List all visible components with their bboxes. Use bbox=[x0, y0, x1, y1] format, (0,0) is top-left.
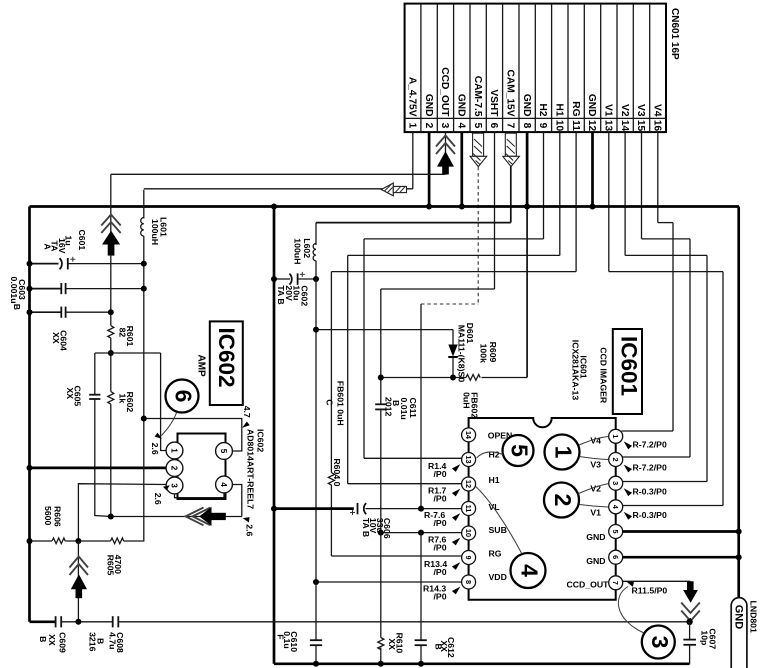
svg-text:4.7: 4.7 bbox=[242, 406, 252, 418]
svg-text:SUB: SUB bbox=[489, 525, 507, 535]
junction dot C607 node bbox=[686, 619, 692, 625]
IC602 pin 5 bbox=[216, 443, 233, 460]
wire pin12 GND stub bbox=[591, 132, 594, 206]
svg-text:R604 0: R604 0 bbox=[332, 458, 342, 486]
inductor L601 bbox=[141, 190, 144, 419]
svg-text:V1: V1 bbox=[590, 508, 601, 518]
wire R609 to GND (x527) bbox=[482, 377, 528, 379]
wire SUB down through R610 bbox=[380, 533, 382, 638]
svg-text:9: 9 bbox=[464, 555, 473, 559]
svg-text:4: 4 bbox=[456, 123, 467, 129]
wire IC602 pin4 output bbox=[232, 485, 241, 517]
wire V2 into IC601 pin3 bbox=[623, 481, 708, 483]
IC601 pin 11 bbox=[462, 502, 476, 516]
wire CCD_OUT mid vertical upper bbox=[110, 174, 112, 245]
svg-text:2.6: 2.6 bbox=[153, 493, 163, 505]
wire V4 horizontal right bbox=[658, 222, 673, 224]
wire V3 into IC601 pin2 bbox=[623, 456, 691, 458]
note circle 5 bbox=[503, 435, 534, 466]
probe arrow 4.7 bbox=[242, 422, 250, 428]
svg-text:1k: 1k bbox=[118, 394, 128, 404]
IC601 pin 8 bbox=[462, 575, 476, 589]
svg-text:3: 3 bbox=[439, 123, 450, 129]
capacitor C606 (polarized) bbox=[358, 503, 367, 514]
svg-text:10p: 10p bbox=[699, 630, 709, 645]
wire pin8 GND stub bbox=[526, 132, 529, 206]
wire V1 into IC601 pin4 bbox=[623, 505, 724, 507]
signal chevrons CCD_OUT (mid) bbox=[101, 215, 120, 234]
probe arrow 2.6 at IC602 pin1 bbox=[155, 433, 162, 439]
junction dot output/R602/C605 bbox=[108, 514, 114, 520]
svg-text:MA111-(K8)S0: MA111-(K8)S0 bbox=[457, 325, 467, 383]
wire 4.75V to IC602 pin5 bbox=[144, 419, 242, 452]
svg-text:V4: V4 bbox=[652, 104, 663, 117]
svg-text:GND: GND bbox=[586, 94, 597, 117]
svg-text:AMP: AMP bbox=[196, 355, 207, 378]
wire C611 to SUB node bbox=[380, 409, 382, 532]
probe arrow + label R13.4/P0 (pin9) bbox=[452, 562, 460, 570]
wire VSHT node row (y377.5) bbox=[381, 377, 466, 379]
junction dots on left rail bbox=[27, 261, 33, 267]
wire CAM_15V horizontal to L602 bbox=[316, 222, 511, 224]
left GND rail bbox=[28, 207, 31, 622]
svg-text:GND: GND bbox=[586, 556, 605, 566]
svg-text:R-7.2/P0: R-7.2/P0 bbox=[633, 439, 667, 449]
svg-text:12: 12 bbox=[464, 480, 473, 488]
junction dots on L601 line bbox=[141, 261, 147, 267]
note circle 6 bbox=[166, 380, 199, 413]
wire C605 branch down bbox=[94, 353, 96, 395]
svg-text:IC602: IC602 bbox=[214, 328, 239, 388]
svg-text:XX: XX bbox=[387, 638, 397, 650]
note circle 2 bbox=[544, 483, 579, 518]
wire H2 horizontal bbox=[364, 238, 544, 240]
wire CAM_15V vertical down bbox=[315, 279, 317, 582]
svg-text:0.001u: 0.001u bbox=[9, 277, 19, 304]
svg-text:RG: RG bbox=[489, 548, 502, 558]
svg-text:F: F bbox=[275, 634, 285, 639]
svg-text:CAM-7.5: CAM-7.5 bbox=[472, 76, 483, 117]
wire pin11 RG stub bbox=[575, 132, 577, 272]
signal chevrons down bbox=[681, 603, 700, 622]
junction dots C602 bbox=[271, 276, 277, 282]
signal arrow CCD_OUT up (solid) bbox=[437, 151, 454, 174]
svg-text:0uH: 0uH bbox=[462, 392, 472, 408]
leader curve 1 to pin1 bbox=[579, 437, 609, 446]
svg-text:H1: H1 bbox=[554, 103, 565, 116]
probe arrow + label R7.6/P0 (pin10) bbox=[452, 538, 460, 546]
leader curve 4 to pin12 bbox=[476, 487, 522, 555]
wire V1 horizontal right bbox=[609, 271, 723, 273]
inductor L602 bbox=[313, 223, 316, 279]
wire pin2 GND stub bbox=[428, 132, 431, 206]
leader curve 2 to pin3 bbox=[579, 484, 609, 494]
svg-text:A: A bbox=[43, 244, 53, 251]
probe arrow 2.6 at IC602 pin3 bbox=[163, 485, 170, 490]
wire node to amp +IN (y353) bbox=[95, 352, 161, 354]
capacitor C612 plates bbox=[415, 640, 427, 645]
wire V2 horizontal right bbox=[625, 254, 707, 256]
svg-text:R606: R606 bbox=[53, 506, 63, 527]
wire R606-R605 row bbox=[30, 540, 53, 542]
wire pin3 CCD_OUT stub (under arrow) bbox=[445, 132, 447, 174]
probe arrow + label R14.3/P0 (pin8) bbox=[452, 587, 460, 595]
IC601 pin 5 bbox=[609, 525, 623, 539]
wire RG horizontal bbox=[331, 271, 576, 273]
svg-text:GND: GND bbox=[423, 94, 434, 117]
svg-text:11: 11 bbox=[570, 120, 581, 131]
wire branch to D601 bbox=[316, 329, 453, 331]
svg-text:CAM_15V: CAM_15V bbox=[505, 70, 516, 117]
note circle 4 bbox=[511, 553, 546, 588]
signal arrow CCD_OUT up (mid, solid) bbox=[102, 231, 120, 256]
wire V2 down right side bbox=[706, 255, 708, 481]
connector CN601 pin name labels bbox=[407, 67, 663, 117]
junction dot 4.75V/pin5 bbox=[141, 416, 147, 422]
svg-text:GND: GND bbox=[521, 94, 532, 117]
junction dots x110.8 bbox=[108, 309, 114, 315]
svg-text:13: 13 bbox=[464, 455, 473, 463]
IC602 body bbox=[178, 434, 226, 500]
off-page arrow down (CAM-7.5) hatched pin5 bbox=[470, 133, 487, 166]
wire output line to CCD_OUT vertical bbox=[111, 516, 242, 518]
svg-text:1: 1 bbox=[170, 448, 179, 453]
signal arrow left (solid) bbox=[199, 507, 226, 526]
svg-text:/P0: /P0 bbox=[434, 494, 447, 504]
junction dots on GND bus bbox=[271, 204, 277, 210]
svg-text:VSHT: VSHT bbox=[488, 89, 499, 117]
svg-text:A_4.75V: A_4.75V bbox=[407, 77, 418, 117]
svg-text:4700: 4700 bbox=[113, 555, 123, 574]
svg-text:2.6: 2.6 bbox=[150, 443, 160, 455]
svg-text:GND: GND bbox=[456, 94, 467, 117]
svg-text:C601: C601 bbox=[77, 230, 87, 251]
plus sign C601 bbox=[70, 257, 75, 262]
svg-text:/P0: /P0 bbox=[434, 592, 447, 602]
svg-text:B: B bbox=[38, 636, 48, 642]
capacitor C602 (polarized) bbox=[289, 273, 297, 284]
svg-text:V1: V1 bbox=[603, 104, 614, 117]
wire pin1 A_4.75V stub bbox=[412, 132, 414, 189]
leader curve 6 to pin1 bbox=[162, 413, 177, 436]
VL line thick from GND vertical bbox=[274, 507, 354, 510]
svg-text:TA B: TA B bbox=[276, 285, 286, 304]
junction dots VL/CAM-7.5 bbox=[418, 506, 424, 512]
svg-text:82: 82 bbox=[118, 328, 128, 338]
resistor R606 zigzag bbox=[52, 538, 65, 544]
wire IC602 pin2 from rail (thick) bbox=[30, 467, 167, 470]
capacitor C601 (polarized) bbox=[60, 258, 68, 269]
junction dots D601/VSHT bbox=[450, 375, 456, 381]
wire V3 down right side bbox=[689, 239, 691, 457]
wire CAM-7.5 dashed down bbox=[477, 167, 479, 304]
wire IC601 pin6 GND (thick) bbox=[623, 556, 739, 559]
plus sign C606 bbox=[350, 510, 355, 515]
svg-text:B: B bbox=[434, 644, 444, 650]
wire VSHT horizontal bbox=[381, 288, 495, 290]
resistor R610 zigzag bbox=[378, 638, 384, 650]
svg-text:100uH: 100uH bbox=[150, 219, 160, 245]
leader curve 5 to pin13 bbox=[477, 452, 503, 458]
wire CAM-7.5 dashed horizontal bbox=[421, 303, 478, 305]
probe arrow + label R-0.3/P0 (pin4) bbox=[624, 512, 632, 520]
wire pin7 CAM_15V stub bbox=[510, 167, 512, 223]
svg-text:2: 2 bbox=[550, 494, 576, 507]
svg-text:6: 6 bbox=[171, 390, 197, 403]
svg-text:10: 10 bbox=[554, 120, 565, 132]
svg-text:5: 5 bbox=[472, 123, 483, 129]
svg-text:100k: 100k bbox=[478, 344, 488, 363]
svg-text:14: 14 bbox=[464, 431, 473, 440]
note circle 1 bbox=[545, 435, 580, 470]
wire C606 to IC601 pin11 VL bbox=[366, 508, 462, 510]
capacitor C603 row wire bbox=[30, 288, 62, 290]
off-page arrow left (A_4.75V) hatched bbox=[0, 0, 407, 196]
IC602 pin 4 bbox=[216, 476, 233, 493]
wire pin9 H2 stub bbox=[543, 132, 545, 239]
svg-text:FB601 0uH: FB601 0uH bbox=[336, 381, 346, 426]
svg-text:3: 3 bbox=[170, 483, 179, 488]
capacitor C601 row wire bbox=[30, 263, 59, 265]
svg-text:7: 7 bbox=[611, 581, 620, 585]
svg-text:2: 2 bbox=[611, 457, 620, 461]
svg-text:R-0.3/P0: R-0.3/P0 bbox=[633, 510, 667, 520]
leader curve 3 to pin7 bbox=[618, 587, 644, 634]
resistor R604 zigzag bbox=[328, 473, 334, 486]
svg-text:11: 11 bbox=[464, 505, 473, 513]
svg-text:100uH: 100uH bbox=[293, 238, 303, 264]
probe arrow + label R-7.6/P0 (pin11) bbox=[452, 513, 460, 521]
wire RG into IC601 pin9 bbox=[331, 555, 461, 557]
svg-text:5: 5 bbox=[507, 444, 533, 457]
svg-text:3: 3 bbox=[647, 636, 673, 649]
probe arrow + label R-7.2/P0 (pin2) bbox=[624, 465, 632, 473]
capacitor C611 plates bbox=[375, 404, 387, 409]
wire V1 down right side bbox=[722, 272, 724, 506]
capacitor C608 plates bbox=[113, 616, 119, 627]
svg-text:6: 6 bbox=[611, 555, 620, 559]
wire pin6 VSHT stub bbox=[494, 132, 496, 289]
svg-text:V2: V2 bbox=[619, 104, 630, 117]
leader curve 2 to pin4 bbox=[579, 505, 608, 508]
diode D601 bbox=[448, 330, 457, 378]
IC602 label box bbox=[210, 321, 243, 405]
off-page arrow down (CAM_15V) hatched pin7 bbox=[503, 133, 520, 166]
svg-text:XX: XX bbox=[51, 332, 61, 344]
probe arrow + label R11.5/P0 (pin7) bbox=[627, 582, 634, 587]
svg-text:R-7.2/P0: R-7.2/P0 bbox=[633, 463, 667, 473]
svg-text:H2: H2 bbox=[489, 450, 500, 460]
wire A_4.75V horizontal to L601 bbox=[144, 188, 413, 190]
svg-text:3: 3 bbox=[611, 481, 620, 485]
wire SUB row to IC601 pin10 bbox=[381, 532, 462, 534]
wire pin10 H1 stub bbox=[559, 132, 561, 255]
svg-text:12: 12 bbox=[586, 120, 597, 132]
svg-text:CCD_OUT: CCD_OUT bbox=[567, 580, 610, 590]
wire pin15 V3 stub bbox=[641, 132, 643, 239]
connector CN601 body bbox=[405, 4, 666, 133]
wire junction down to C609 node bbox=[77, 541, 79, 622]
svg-text:CCD IMAGER: CCD IMAGER bbox=[599, 347, 609, 404]
svg-text:/P0: /P0 bbox=[434, 518, 447, 528]
resistor R605 zigzag bbox=[111, 538, 124, 544]
IC602 pin 3 bbox=[166, 477, 183, 494]
IC601 pin 9 bbox=[462, 551, 476, 565]
capacitor C609 plates bbox=[56, 616, 62, 627]
wire R606 to junction bbox=[66, 540, 111, 542]
svg-text:2012: 2012 bbox=[384, 397, 394, 416]
wire V4 into IC601 pin1 bbox=[622, 430, 674, 432]
wire pin16 V4 stub bbox=[657, 132, 659, 223]
IC601 pin 10 bbox=[462, 526, 476, 540]
svg-text:R-0.3/P0: R-0.3/P0 bbox=[633, 486, 667, 496]
probe arrow + label R-7.2/P0 (pin1) bbox=[624, 441, 632, 449]
capacitor C610 plates bbox=[310, 640, 322, 645]
junction dot R606/R605/feedback bbox=[75, 538, 81, 544]
signal chevrons CCD_OUT up bbox=[436, 136, 455, 155]
svg-text:GND: GND bbox=[733, 605, 745, 630]
probe arrow + label R-0.3/P0 (pin3) bbox=[624, 488, 632, 496]
svg-text:V3: V3 bbox=[635, 104, 646, 117]
wire pin4 GND stub bbox=[460, 132, 463, 206]
wire CCD_OUT mid vertical bbox=[110, 255, 112, 326]
svg-text:V3: V3 bbox=[590, 459, 601, 469]
svg-text:2.6: 2.6 bbox=[244, 524, 254, 536]
svg-text:TA B: TA B bbox=[361, 518, 371, 537]
svg-text:4.7u: 4.7u bbox=[108, 632, 118, 649]
svg-text:LND801: LND801 bbox=[748, 601, 758, 634]
svg-text:1: 1 bbox=[407, 123, 418, 129]
svg-text:GND: GND bbox=[586, 532, 605, 542]
probe arrow + label R1.7/P0 (pin12) bbox=[452, 489, 460, 497]
resistor R601 zigzag bbox=[108, 326, 114, 339]
svg-text:7: 7 bbox=[505, 123, 516, 129]
wire C612 branch down bbox=[420, 533, 422, 641]
wire R604 down to pin9 row bbox=[330, 485, 332, 556]
capacitor C604 plates bbox=[61, 307, 65, 318]
svg-text:/P0: /P0 bbox=[434, 543, 447, 553]
svg-text:15: 15 bbox=[635, 120, 646, 132]
wire CCD_OUT horizontal to x110.8 bbox=[111, 173, 446, 175]
IC601 body bbox=[469, 418, 616, 600]
capacitor C605 plates bbox=[89, 395, 100, 399]
wire IC601 pin7 CCD_OUT bbox=[623, 580, 691, 582]
IC601 pin 1 bbox=[609, 429, 623, 443]
junction dot C609/C608/feedback bbox=[75, 619, 81, 625]
svg-text:CCD_OUT: CCD_OUT bbox=[439, 67, 450, 117]
svg-text:C609: C609 bbox=[58, 632, 68, 653]
svg-text:10: 10 bbox=[464, 529, 473, 537]
svg-text:R11.5/P0: R11.5/P0 bbox=[632, 586, 668, 596]
signal arrow up (solid) at x78 bbox=[71, 574, 87, 598]
wire V3 horizontal right bbox=[642, 238, 691, 240]
svg-text:6: 6 bbox=[488, 123, 499, 129]
IC601 pin 7 bbox=[609, 576, 623, 590]
IC602 pin 1 bbox=[166, 442, 183, 459]
IC601 pin 4 bbox=[609, 500, 623, 514]
svg-text:8: 8 bbox=[464, 580, 473, 584]
svg-text:1: 1 bbox=[551, 446, 577, 459]
wire C608 long line to C607 node bbox=[118, 621, 689, 623]
wire C605 down to output line bbox=[95, 399, 111, 517]
svg-text:13: 13 bbox=[603, 120, 614, 132]
wire H1 horizontal bbox=[348, 254, 560, 256]
svg-text:3216: 3216 bbox=[88, 632, 98, 651]
resistor R609 zigzag bbox=[466, 375, 480, 381]
svg-text:XX: XX bbox=[65, 388, 75, 400]
svg-text:5: 5 bbox=[219, 449, 228, 454]
wire VSHT down to D601 node bbox=[380, 289, 382, 404]
wire pin8 GND down to R609 bbox=[526, 207, 528, 378]
svg-text:IC601: IC601 bbox=[616, 336, 641, 396]
svg-text:1: 1 bbox=[611, 434, 620, 438]
svg-text:5: 5 bbox=[611, 529, 620, 533]
wire H1 into IC601 pin12 bbox=[348, 483, 462, 485]
wire pin14 V2 stub bbox=[624, 132, 626, 255]
svg-text:/P0: /P0 bbox=[434, 567, 447, 577]
signal chevrons (CCD signal up into feedback) bbox=[70, 557, 89, 576]
junction dots SUB bbox=[378, 530, 384, 536]
svg-text:ICX281AKA-13: ICX281AKA-13 bbox=[570, 340, 580, 401]
svg-text:4: 4 bbox=[517, 564, 543, 577]
svg-text:/P0: /P0 bbox=[434, 469, 447, 479]
IC601 pin 2 bbox=[609, 453, 623, 467]
wire C609 to C608 bbox=[61, 621, 112, 623]
svg-text:16: 16 bbox=[652, 120, 663, 132]
IC601 internal pin names bbox=[488, 430, 609, 589]
IC601 pin 6 bbox=[609, 550, 623, 564]
wire IC602 pin3 feedback line bbox=[78, 484, 166, 541]
svg-text:5600: 5600 bbox=[43, 506, 53, 525]
note circle 3 bbox=[642, 626, 675, 659]
leader curve 1 to pin2 bbox=[580, 457, 609, 460]
wire pin13 V1 stub bbox=[608, 132, 610, 272]
IC601 label box bbox=[613, 329, 642, 414]
IC602 pin 2 bbox=[166, 460, 183, 477]
GND bus horizontal bbox=[30, 205, 740, 208]
IC601 pin 13 bbox=[462, 453, 476, 467]
wire CAM-7.5 down to VL node bbox=[420, 304, 422, 509]
wire R601 to node bbox=[110, 338, 112, 391]
wire IC601 pin5 GND (thick) bbox=[623, 530, 739, 533]
IC601 pin 12 bbox=[462, 477, 476, 491]
capacitor C609 row (bottom left) bbox=[30, 620, 56, 623]
GND main vertical (middle) bbox=[273, 207, 276, 664]
wire R605 to 4.75V vertical bbox=[124, 419, 144, 542]
svg-text:B: B bbox=[12, 304, 22, 310]
GND bus right vertical bbox=[737, 207, 740, 599]
svg-text:14: 14 bbox=[619, 120, 630, 132]
resistor R602 zigzag bbox=[108, 392, 114, 405]
wire V4 down right side bbox=[672, 223, 674, 431]
svg-text:8: 8 bbox=[521, 123, 532, 129]
probe arrow + label R1.4/P0 (pin13) bbox=[452, 464, 460, 472]
capacitor C602 row wire bbox=[274, 278, 290, 280]
connector CN601 pin numbers 1-16 bbox=[407, 120, 663, 132]
probe arrow 2.6 (output) bbox=[243, 517, 250, 522]
wire RG down to R604 bbox=[330, 272, 332, 473]
wire C607 to bottom rail bbox=[689, 645, 691, 664]
svg-text:2: 2 bbox=[423, 123, 434, 129]
wire H1 down bbox=[347, 255, 349, 483]
svg-text:C: C bbox=[325, 399, 335, 406]
svg-text:H2: H2 bbox=[537, 103, 548, 116]
svg-text:4: 4 bbox=[219, 482, 228, 487]
svg-text:VDD: VDD bbox=[489, 572, 507, 582]
ground symbol LND801 (stadium) bbox=[731, 598, 747, 668]
svg-text:H1: H1 bbox=[489, 475, 500, 485]
capacitor C607 plates bbox=[683, 640, 696, 645]
